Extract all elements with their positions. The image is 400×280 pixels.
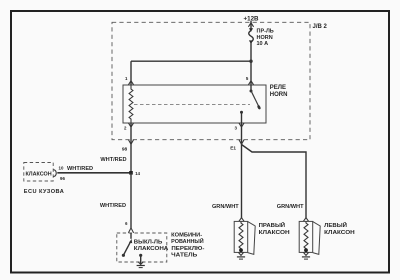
pin 1 chevron [128,81,133,85]
connector E1 chevron [239,140,244,145]
svg-text:ЛЕВЫЙ: ЛЕВЫЙ [324,221,347,229]
svg-text:ПР-ЛЬ: ПР-ЛЬ [257,29,274,35]
fuse label [257,29,274,48]
svg-text:GRN/WHT: GRN/WHT [212,204,239,210]
svg-text:14: 14 [135,171,140,176]
wire junction down to horn switch [130,173,132,228]
node junction 14 [129,171,133,175]
wire branch to left horn [242,145,307,219]
svg-text:HORN: HORN [257,35,273,41]
svg-text:ЧАТЕЛЬ: ЧАТЕЛЬ [171,253,197,259]
svg-text:КЛАКСОН: КЛАКСОН [26,171,52,177]
svg-text:ПРАВЫЙ: ПРАВЫЙ [259,221,286,229]
fuse HORN 10A [249,28,254,44]
svg-text:КЛАКСОН: КЛАКСОН [324,230,355,236]
svg-text:КЛАКСОН: КЛАКСОН [259,230,290,236]
svg-text:HORN: HORN [270,92,288,98]
wire horizontal feed to pin 1 [131,60,251,62]
svg-text:ECU КУЗОВА: ECU КУЗОВА [24,189,64,195]
horn switch arm [123,242,130,256]
svg-text:WHT/RED: WHT/RED [67,166,93,172]
relay switch contact from pin 5 [250,85,252,91]
svg-text:10 А: 10 А [257,41,269,47]
relay coil [129,85,133,123]
ECU connector dashed box [24,163,53,182]
left horn connector chevron [303,218,308,222]
horn switch dashed box [117,233,167,262]
svg-text:ВЫКЛ-ЛЬ: ВЫКЛ-ЛЬ [134,239,163,245]
ground chevron right horn [238,252,243,255]
ground chevron below switch [138,262,143,265]
ground chevron left horn [303,252,308,255]
svg-text:WHT/RED: WHT/RED [100,203,126,209]
left horn body [299,221,320,254]
wire ECU to junction [57,172,131,174]
right horn body [234,221,255,254]
svg-text:10: 10 [59,166,64,171]
relay label [270,85,288,98]
node junction dot [249,60,252,63]
ground at right horn [237,256,245,259]
svg-text:J/B 2: J/B 2 [313,24,328,30]
svg-text:96: 96 [60,176,65,181]
pin 3 chevron [239,123,244,127]
wire pin 2 down through J/B2 edge [130,123,132,173]
svg-text:GRN/WHT: GRN/WHT [277,204,304,210]
horn switch chevron [128,228,133,233]
right horn label [259,221,290,236]
relay armature arm [251,91,259,107]
svg-text:РЕЛЕ: РЕЛЕ [270,85,286,91]
relay fixed contact to pin 3 [240,111,243,114]
left horn label [324,221,355,236]
combination switch label [171,232,204,258]
svg-text:WHT/RED: WHT/RED [100,157,126,163]
connector arc at ECU box [54,170,57,177]
horn switch label [134,239,169,252]
svg-text:РОВАННЫЙ: РОВАННЫЙ [171,237,204,245]
relay mechanical dashed link [134,104,250,106]
wire +12V feed [250,21,252,30]
svg-text:КОМБИНИ-: КОМБИНИ- [171,232,202,238]
wire fuse to pin 5 [250,42,252,85]
svg-text:ПЕРЕКЛЮ-: ПЕРЕКЛЮ- [171,246,204,252]
pin 2 chevron [128,123,133,127]
connector 98 chevron [128,140,133,145]
junction block J/B 2 dashed box [112,22,310,139]
ground at left horn [302,256,310,259]
pin 5 chevron [248,81,253,85]
horn switch terminal stub [130,233,132,239]
wire down to relay pin 1 [130,61,132,85]
svg-text:98: 98 [122,147,128,153]
connector chevron at J/B2 top [248,23,253,27]
svg-text:КЛАКСОНА: КЛАКСОНА [134,246,169,252]
horn switch ground contact [139,254,142,257]
relay HORN box [123,85,266,123]
ground at horn switch [137,265,145,268]
wire pin 3 down through J/B2 edge [241,123,243,218]
svg-text:E1: E1 [230,145,236,150]
right horn connector chevron [239,218,244,222]
